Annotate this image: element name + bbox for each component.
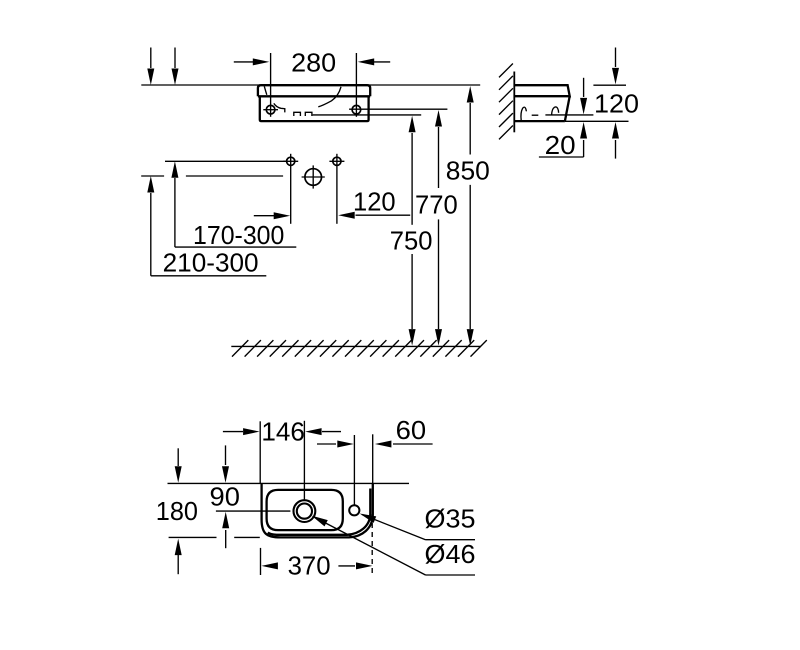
faucet circle horizontal crosshair [302,176,325,178]
label O35 underline [426,539,476,541]
basin profile bottom [514,120,565,122]
dimension 370 arrow left [261,562,278,569]
svg-text:370: 370 [288,550,331,580]
drain outer circle [294,500,316,522]
supply hole right vertical [336,154,338,224]
profile top extension line [593,84,626,86]
svg-text:170-300: 170-300 [193,220,284,250]
supply hole left circle [287,157,295,165]
tap hole circle [349,505,359,515]
dimension 60 arrow left [317,443,336,445]
dimension 210-300 vertical with up arrow [150,193,152,276]
leader O35 [362,515,426,540]
svg-text:60: 60 [396,415,427,445]
fixing hole left (front view) [266,105,275,114]
drain inner circle [297,504,312,519]
basin profile interior dash [532,114,539,116]
basin front drain trap mark left [294,112,301,116]
plan extension line right edge [372,434,374,483]
basin profile interior curve left [521,107,526,120]
dimension 120 bottom arrow [615,140,617,159]
plan 90 drain line [216,510,291,512]
plan 180 front line [169,536,217,538]
svg-text:146: 146 [261,416,305,446]
dimension 280 arrow left [234,61,254,63]
plan extension line tap center [353,435,355,505]
dimension 280 arrow right [374,61,390,63]
dimension 20 top arrow [583,78,585,97]
svg-text:120: 120 [353,186,396,216]
ground hatching [232,340,487,357]
svg-text:Ø35: Ø35 [425,503,476,533]
basin profile interior curve right [552,107,559,115]
svg-text:Ø46: Ø46 [425,539,476,569]
plan dashed extension right [371,514,373,575]
svg-text:770: 770 [415,190,458,220]
supply hole left vertical [290,154,292,224]
basin profile rim [514,85,569,96]
wall reference line (elevation) [141,84,480,86]
profile inner bottom line (20 ref) [545,114,593,116]
basin profile body front edge [565,96,570,121]
basin front interior left drain curve [274,103,285,112]
faucet middle circle [305,169,322,186]
leader O46 [314,517,426,575]
dimension 146 arrow left [223,431,243,433]
label 20 underline [539,156,584,158]
basin front interior bowl curve right [318,87,341,107]
basin front view body [260,96,369,121]
plan inner bowl [267,490,343,530]
label O46 underline [426,574,476,576]
fixing hole line to 770 [349,108,447,110]
dimension 120 top arrow [615,48,617,68]
dimension 370 arrow right [338,565,355,567]
wall section vertical line [513,72,515,133]
dimension 850 vertical line [469,103,471,155]
wall section hatching [499,64,513,140]
ground line [231,345,481,347]
label 210-300 underline [151,275,266,277]
dimension 280 extension line right [355,53,357,117]
arrow down 170-300 at wall line [174,48,176,69]
plan basin inner rim edge [268,489,371,535]
dimension 60 arrow right [393,443,433,445]
dimension 20 bottom arrow [583,140,585,157]
svg-text:180: 180 [156,496,198,526]
profile bottom extension line [565,120,629,122]
basin front view rim bottom edge [258,95,370,97]
dimension 370 left extension [260,548,262,575]
basin front view rim [258,85,370,96]
supply line lower (210-300) right segment [186,175,283,177]
faucet circle vertical crosshair [312,165,314,188]
svg-text:280: 280 [291,48,336,78]
supply hole right tick [329,160,344,162]
plan extension line left edge [259,421,261,483]
plan wall line [168,482,410,484]
dimension 90 top arrow [225,445,227,465]
svg-text:120: 120 [594,88,639,118]
supply line upper (170-300) [165,160,286,162]
plan extension line drain center [303,421,305,500]
dimension 280 extension line left [270,53,272,117]
supply hole right circle [333,157,341,165]
basin front interior left rim curve [264,86,267,95]
svg-text:210-300: 210-300 [163,247,259,277]
dimension 180 bottom arrow [177,555,179,574]
supply line lower (210-300) left segment [141,175,164,177]
arrow 120 pointing left [356,214,411,216]
dimension 90 bottom arrow [225,530,227,548]
dimension 170-300 vertical with up arrow [174,178,176,247]
arrow down 210-300 at wall line [150,48,152,69]
dimension 180 top arrow [177,448,179,466]
basin front drain trap mark right [305,112,312,116]
supply hole left tick [283,160,298,162]
arrow 170-300 pointing right [254,215,274,217]
plan basin outer outline [262,484,373,538]
svg-text:90: 90 [210,482,240,512]
svg-text:750: 750 [390,226,433,256]
drain level line to 750 [313,114,422,116]
svg-text:850: 850 [446,156,490,186]
label 170-300 underline [175,246,296,248]
svg-text:20: 20 [545,130,576,160]
fixing hole right (front view) [352,105,361,114]
dimension 770 vertical line [438,127,440,188]
dimension 146 arrow right [322,431,341,433]
dimension 750 vertical line [411,133,413,225]
fixing hole left crosshair [263,109,278,111]
